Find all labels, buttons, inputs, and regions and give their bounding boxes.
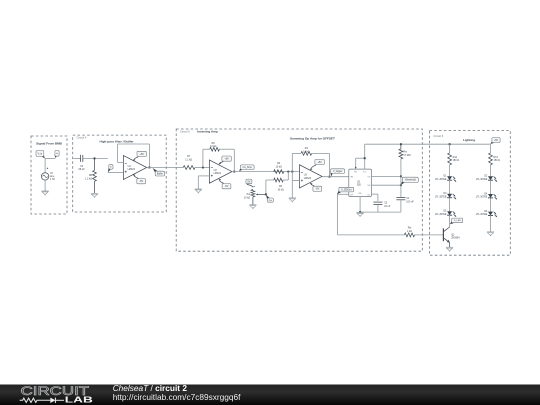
svg-text:-5V: -5V <box>225 185 229 188</box>
junction U2 feedback-output <box>233 171 235 173</box>
label R4 10 kOhm <box>277 185 284 191</box>
wire U3 feedback right vertical <box>329 153 331 176</box>
label D3 LTL-307EE <box>435 193 447 198</box>
power flag +5V (U3) <box>310 159 324 170</box>
label R5 17 MOhm <box>403 151 410 157</box>
svg-text:10 kΩ: 10 kΩ <box>244 196 251 199</box>
IC U5 555 timer <box>349 169 372 197</box>
power flag +5V (rail) <box>491 138 501 144</box>
power flag +5V (U2) <box>219 156 231 164</box>
wire D4 to D6 <box>490 198 492 212</box>
wire R12 to D1 <box>449 165 451 176</box>
node flag V_in <box>36 151 45 159</box>
power flag +5V (U4) <box>133 151 146 160</box>
wire bottom gnd rail <box>360 211 401 213</box>
title High pass filter / Buffer <box>99 139 134 143</box>
svg-text:+5V: +5V <box>140 153 145 156</box>
resistor R8 <box>93 170 97 181</box>
wire 555 CTL <box>372 194 378 201</box>
label D4 LTL-307EE <box>476 193 488 198</box>
label R8 1.2 kOhm <box>85 174 93 180</box>
node flag Tr_LED <box>450 218 463 224</box>
wire D2 to D4 <box>490 180 492 194</box>
LED D1 <box>447 176 456 182</box>
wire +5V top rail <box>365 143 491 145</box>
resistor R2 <box>274 170 284 174</box>
label Pot 10 kOhm <box>244 193 251 199</box>
wire R7 to U2 <box>195 167 209 169</box>
wire R4 left to pot wiper <box>266 180 274 194</box>
resistor R4 <box>274 178 284 182</box>
svg-text:LTL-307EE: LTL-307EE <box>435 179 447 181</box>
wire U2 feedback top right <box>219 148 234 150</box>
wire 555 THR <box>372 184 401 186</box>
svg-text:R12: R12 <box>453 156 458 159</box>
junction VCC/RST tee <box>364 157 366 159</box>
svg-text:sine: sine <box>50 175 55 178</box>
op-amp U2 LM324 <box>209 160 232 183</box>
label R7 1.1 kOhm <box>185 155 192 161</box>
resistor R5 17 MOhm <box>399 149 403 159</box>
node flag V_trigger <box>330 169 344 177</box>
ground (right branch) <box>487 232 494 236</box>
svg-text:LTL-307EE: LTL-307EE <box>435 196 447 198</box>
junction DIS <box>400 175 402 177</box>
resistor R12 150 <box>448 153 452 165</box>
wire R5 top lead <box>400 144 402 149</box>
node flag In (small) <box>55 151 60 158</box>
svg-text:Rst: Rst <box>408 227 412 230</box>
pot wiper arrow <box>256 194 266 196</box>
node flag In at buffer + input <box>108 165 113 173</box>
junction R4 join <box>287 171 289 173</box>
label R12 150 <box>453 156 460 162</box>
svg-text:V_in: V_in <box>38 153 43 155</box>
LED D2 <box>488 176 497 182</box>
junction at R8 top <box>94 157 96 159</box>
svg-text:Signal From BMB: Signal From BMB <box>36 141 63 145</box>
label R3 10 kOhm <box>303 147 310 153</box>
ground (box1) <box>42 191 49 195</box>
footer bar <box>0 385 540 405</box>
capacitor C1 100 nF <box>396 197 405 199</box>
ground (R8) <box>91 193 98 197</box>
svg-text:Inverting Amp: Inverting Amp <box>197 130 218 134</box>
wire U2 feedback left vertical <box>202 149 204 167</box>
svg-text:-5V: -5V <box>139 180 143 183</box>
node flag V_555Out <box>337 187 354 194</box>
wire flags to source top <box>45 158 56 172</box>
wire U3 + input to ground <box>292 172 299 198</box>
svg-text:LM324: LM324 <box>128 168 136 171</box>
label D1 LTL-307EE <box>435 176 447 181</box>
svg-text:+5V: +5V <box>494 140 499 142</box>
wire 555 OUT <box>338 194 349 235</box>
wire feedback right vertical <box>148 144 150 168</box>
svg-text:http://circuitlab.com/c7c89sxr: http://circuitlab.com/c7c89sxrggq6f <box>113 392 241 402</box>
wire U2 feedback top left <box>203 148 210 150</box>
svg-text:Lighting: Lighting <box>463 138 475 142</box>
resistor R6 <box>210 147 220 151</box>
wire R5 bottom to discharge <box>400 159 402 177</box>
wire feedback left vertical <box>117 144 119 162</box>
wire 555 DIS <box>372 175 401 177</box>
svg-text:100 nF: 100 nF <box>406 200 414 203</box>
svg-text:5V: 5V <box>247 180 250 183</box>
svg-text:1.1 kΩ: 1.1 kΩ <box>185 159 192 162</box>
svg-text:10 nF: 10 nF <box>384 205 391 208</box>
voltage source V2 sine 1 Hz <box>41 168 48 181</box>
LED D6 <box>488 212 497 218</box>
op-amp U4 LM324 <box>123 156 146 180</box>
svg-text:17 MΩ: 17 MΩ <box>403 154 410 157</box>
wire C3 to stub <box>83 157 108 159</box>
wire U2 feedback right vertical <box>233 149 235 171</box>
svg-text:In: In <box>110 167 112 169</box>
op-amp U3 LM324 <box>300 165 323 188</box>
ground (pot) <box>249 205 256 209</box>
svg-text:10 kΩ: 10 kΩ <box>277 188 284 191</box>
footer text ChelseaT / circuit 2 and url <box>113 383 241 402</box>
wire D1 to D3 <box>449 180 451 194</box>
wire 555 GND pin <box>359 197 361 213</box>
wire OUT to Rst <box>338 234 405 236</box>
label R13 150 <box>494 156 501 162</box>
label Rst 1 kOhm <box>407 227 412 233</box>
junction rail at R5 <box>400 143 402 145</box>
junction U3 feedback-output <box>329 176 331 178</box>
node flag Vthreshold <box>401 177 418 185</box>
svg-text:2N3904: 2N3904 <box>451 237 460 240</box>
wire Rst to Q2 base <box>415 234 444 236</box>
svg-text:1.2 kΩ: 1.2 kΩ <box>85 177 92 180</box>
junction pot wiper node <box>265 193 267 195</box>
enclosure box: Signal From BMB <box>31 136 67 214</box>
label R2 10 kOhm <box>276 162 283 168</box>
label Circuit 6 <box>433 134 443 138</box>
title Signal From BMB <box>36 141 63 145</box>
junction R7/feedback <box>202 167 204 169</box>
resistor R3 <box>301 152 312 156</box>
wire pot bottom <box>252 197 254 205</box>
label C1 100 nF <box>406 197 414 203</box>
svg-text:R13: R13 <box>494 156 499 159</box>
label C2 10 nF <box>384 202 391 208</box>
wire 555 VCC/RST loop <box>355 144 365 169</box>
wire U3 feedback top right <box>312 152 330 154</box>
junction feedback join <box>291 171 293 173</box>
LED D3 <box>447 194 456 200</box>
CircuitLab logo <box>20 385 94 404</box>
svg-text:68 uF: 68 uF <box>79 168 86 171</box>
capacitor C2 10 nF <box>373 202 382 204</box>
wire R8 top lead <box>94 158 96 170</box>
label Q2 2N3904 <box>451 233 460 239</box>
wire source to ground <box>44 180 46 191</box>
title Lighting <box>463 138 475 142</box>
label Circuit 4 <box>77 136 87 140</box>
power flag -5V (U4) <box>133 174 145 183</box>
svg-text:150 Ω: 150 Ω <box>453 159 460 162</box>
wire box3 input <box>176 167 183 169</box>
svg-text:Pot: Pot <box>247 193 251 196</box>
node flag Buffer <box>153 168 165 176</box>
svg-text:LTL-307EE: LTL-307EE <box>435 214 447 216</box>
enclosure box: Circuit 4 <box>73 135 167 212</box>
wire Q2 emitter to ground <box>449 243 451 248</box>
svg-text:10 kΩ: 10 kΩ <box>303 151 310 154</box>
capacitor C3 <box>81 155 83 162</box>
svg-text:LM324: LM324 <box>214 172 222 175</box>
wire feedback top <box>118 143 150 145</box>
wire U2 + input <box>198 176 209 189</box>
wire - input feedback tap <box>118 161 124 163</box>
svg-text:+5V: +5V <box>317 161 322 164</box>
wire D3 to D5 <box>449 198 451 212</box>
wire DIS-THR vertical <box>400 176 402 197</box>
svg-text:+5V: +5V <box>224 158 229 161</box>
ground (U3 +) <box>289 198 296 202</box>
wire right branch top <box>490 144 492 153</box>
svg-text:LTL-307EE: LTL-307EE <box>476 197 488 199</box>
resistor R7 <box>183 166 195 170</box>
wire input to C3 <box>73 157 80 159</box>
wire R4 right to summing node <box>283 172 288 180</box>
wire to + input of U4 <box>108 172 124 174</box>
svg-text:Rw: Rw <box>403 151 407 154</box>
svg-text:High pass filter / Buffer: High pass filter / Buffer <box>99 139 134 143</box>
title Inverting Amp <box>197 130 218 134</box>
svg-text:LAB: LAB <box>65 396 94 405</box>
svg-text:12 kΩ: 12 kΩ <box>210 145 217 148</box>
junction THR <box>400 184 402 186</box>
enclosure box: Circuit 5 <box>176 129 422 251</box>
wire D5 to Q2 collector <box>449 215 451 227</box>
label C3 68 uF <box>79 165 86 171</box>
ground (U2 +) <box>195 189 202 193</box>
svg-text:1 kΩ: 1 kΩ <box>407 230 412 233</box>
wire U4 output to box3 <box>147 167 176 169</box>
label D5 LTL-307EE <box>435 211 447 216</box>
wire U3 feedback vertical left <box>291 153 293 171</box>
power flag -5V (U2) <box>219 179 231 189</box>
wire U3 feedback top left <box>292 152 301 154</box>
wire left branch top <box>449 144 451 153</box>
svg-text:Summing Op Amp for OFFSET: Summing Op Amp for OFFSET <box>290 136 335 140</box>
wire R13 to D2 <box>490 165 492 176</box>
resistor R13 150 <box>489 153 493 165</box>
ground (Q2) <box>446 247 453 251</box>
svg-text:150 Ω: 150 Ω <box>494 159 501 162</box>
label Circuit 5 <box>180 130 190 134</box>
wire U2 output to summing node <box>232 171 300 173</box>
label D2 LTL-307EE <box>476 176 488 181</box>
node flag Inv_Amp <box>239 165 254 171</box>
wire D6 to ground <box>490 215 492 232</box>
label D6 LTL-307EE <box>476 211 488 216</box>
transistor Q2 2N3904 <box>443 227 450 243</box>
LED D5 <box>447 211 456 217</box>
node flag Pot <box>266 195 273 202</box>
wire C1 bottom <box>400 200 402 212</box>
title Summing Op Amp for OFFSET <box>290 136 335 140</box>
svg-text:-5V: -5V <box>315 188 319 191</box>
wire U3 output to 555 <box>322 176 349 178</box>
svg-text:LTL-307EE: LTL-307EE <box>476 179 488 181</box>
junction feedback-output <box>148 167 150 169</box>
svg-text:LTL-307EE: LTL-307EE <box>476 214 488 216</box>
svg-text:1 Hz: 1 Hz <box>50 178 56 181</box>
junction gnd rail <box>359 211 361 213</box>
LED D4 <box>488 194 497 200</box>
label V2 sine 1 Hz <box>50 172 56 181</box>
ground (555) <box>357 213 364 217</box>
svg-text:LM324: LM324 <box>304 177 312 180</box>
potentiometer Pot 10 kOhm <box>251 190 255 197</box>
wire R8 to ground <box>94 181 96 193</box>
label R6 12 kOhm <box>210 142 217 148</box>
resistor Rst 1 kOhm <box>404 233 414 237</box>
power flag -5V (U3) <box>310 183 321 191</box>
enclosure box: Circuit 6 <box>429 131 510 256</box>
wire C2 bottom <box>377 205 379 213</box>
junction rail left branch <box>449 143 451 145</box>
svg-text:10 kΩ: 10 kΩ <box>276 166 283 169</box>
power flag +5V (pot top) <box>246 179 255 187</box>
